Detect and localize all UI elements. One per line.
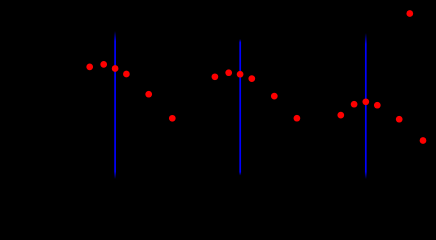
red data point 4 [123, 71, 130, 78]
red data point 2 [100, 61, 107, 68]
red data point 17 [396, 116, 403, 123]
red data point 16 [374, 102, 381, 109]
red data point 14 [351, 101, 358, 108]
red data point 5 [145, 91, 152, 98]
red data point 8 [225, 69, 232, 76]
red data point 11 [271, 93, 278, 100]
red data point outlier [406, 10, 413, 17]
red data point 3 [112, 65, 119, 72]
blue vertical line 2 [239, 39, 241, 176]
blue vertical line 3 [365, 33, 367, 179]
blue vertical line 1 [114, 31, 116, 179]
red data point 1 [86, 64, 93, 71]
red data point 15 [362, 98, 369, 105]
red data point 9 [237, 71, 244, 78]
red data point 18 [420, 137, 427, 144]
red data point 7 [212, 73, 219, 80]
red data point 6 [169, 115, 176, 122]
red data point 12 [294, 115, 301, 122]
red data point 10 [248, 75, 255, 82]
red data point 13 [337, 112, 344, 119]
